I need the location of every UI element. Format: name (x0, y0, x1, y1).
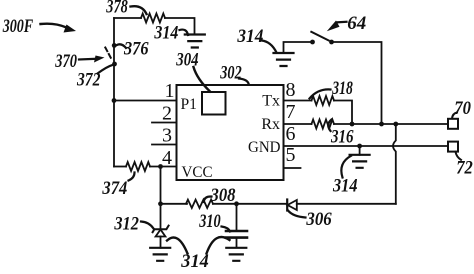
diode 306 triangle (288, 200, 297, 210)
svg-text:6: 6 (286, 123, 296, 145)
leader for 316 (328, 120, 331, 132)
junction dot pin1 (112, 98, 117, 103)
svg-text:374: 374 (102, 178, 128, 199)
leader for 308 (204, 196, 212, 202)
leader arc right for 314 (207, 237, 230, 253)
node 372 junction dot (112, 62, 117, 67)
svg-text:Tx: Tx (262, 93, 280, 110)
wire (150, 166, 177, 168)
leader for 314 (341, 156, 351, 178)
resistor 316 (312, 120, 335, 129)
arrow for 300F (41, 24, 67, 28)
svg-text:306: 306 (306, 209, 333, 230)
wire (165, 18, 195, 35)
port P1 square 304 (202, 92, 226, 115)
resistor 374 (126, 162, 150, 171)
arrow for 370 (79, 58, 96, 61)
svg-text:378: 378 (106, 0, 129, 18)
svg-text:Rx: Rx (261, 116, 280, 133)
wire Rx net (334, 123, 448, 125)
svg-text:314: 314 (154, 23, 179, 44)
svg-text:1: 1 (165, 80, 175, 102)
svg-text:304: 304 (176, 50, 199, 71)
pin 5 stub (284, 167, 301, 169)
leader for 72 (456, 152, 462, 160)
pin 2 stub (152, 122, 177, 124)
connector 72 (448, 142, 458, 152)
svg-text:370: 370 (55, 51, 78, 72)
junction dot (158, 201, 163, 206)
wire (334, 101, 352, 125)
pin 6 wire GND net (284, 145, 449, 147)
capacitor wire out (236, 239, 238, 248)
svg-text:70: 70 (454, 98, 471, 119)
IC 302 body (177, 85, 284, 180)
svg-text:3: 3 (162, 125, 172, 147)
svg-text:8: 8 (286, 79, 296, 101)
junction dot (357, 144, 362, 149)
node 376 junction dot (112, 43, 117, 48)
switch 64 blade (311, 32, 328, 41)
svg-text:7: 7 (286, 101, 296, 123)
svg-text:314: 314 (180, 251, 208, 269)
svg-text:318: 318 (332, 78, 354, 99)
leader for 306 (288, 211, 306, 218)
wire with crossover hop (393, 124, 396, 204)
zener wire out (160, 237, 162, 248)
ground (226, 248, 246, 261)
ground (150, 248, 170, 261)
junction dot (234, 201, 239, 206)
svg-text:300F: 300F (2, 16, 33, 37)
junction dot (379, 122, 384, 127)
leader for 314 (262, 41, 277, 53)
leader for 372 (98, 65, 114, 74)
leader for 302 (239, 79, 249, 85)
zener 312 cathode bar with hooks (153, 226, 169, 233)
switch contact dot (310, 40, 315, 45)
bottom rail wire (161, 203, 188, 205)
wire top (114, 17, 141, 19)
svg-text:GND: GND (248, 139, 281, 156)
ground stub wire (284, 42, 313, 53)
capacitor 310 bottom plate (226, 236, 247, 239)
svg-text:314: 314 (236, 26, 263, 47)
ground (185, 35, 205, 48)
leader for 312 (141, 222, 154, 229)
zener 312 triangle (156, 230, 166, 237)
svg-text:VCC: VCC (182, 164, 213, 181)
wire (297, 203, 396, 205)
leader arc left for 314 (167, 237, 188, 253)
pin 4 wire (114, 166, 126, 168)
resistor 318 (312, 96, 335, 105)
svg-text:376: 376 (123, 38, 149, 59)
vertical wire pin4 to bottom rail (160, 167, 162, 204)
leader for 304 (194, 67, 211, 92)
pin 1 wire (114, 100, 177, 102)
svg-text:5: 5 (286, 144, 296, 166)
svg-text:314: 314 (332, 176, 357, 197)
leader for 318 (310, 89, 331, 98)
ground stub (359, 146, 361, 155)
pin 3 stub (152, 144, 177, 146)
capacitor 310 wire in (236, 204, 238, 230)
connector 70 (448, 119, 458, 129)
junction dot (350, 122, 355, 127)
svg-text:P1: P1 (181, 96, 198, 113)
arrow for 64 (338, 21, 347, 24)
junction dot (393, 122, 398, 127)
diode 306 cathode bar (286, 200, 288, 211)
svg-text:72: 72 (456, 157, 473, 178)
ground (350, 155, 370, 168)
svg-text:312: 312 (114, 213, 140, 234)
pin 8 wire (284, 100, 312, 102)
switch ground (274, 53, 294, 66)
zener diode 312 wire in (160, 204, 162, 229)
svg-text:2: 2 (162, 103, 172, 125)
leader for 314 (180, 30, 189, 35)
leader for 374 (129, 173, 135, 181)
junction dot (158, 164, 163, 169)
leader for 376 (117, 44, 127, 48)
svg-text:310: 310 (198, 211, 221, 232)
svg-text:302: 302 (220, 63, 243, 84)
svg-text:316: 316 (330, 126, 354, 147)
svg-text:308: 308 (210, 185, 236, 206)
wire (213, 203, 287, 205)
pin 7 wire (284, 123, 312, 125)
leader for 70 (452, 113, 457, 119)
dashed break 370 (105, 48, 111, 59)
wire left vertical bus (113, 18, 115, 167)
leader for 310 (222, 227, 231, 232)
resistor 308 (186, 200, 213, 208)
switch contact dot (329, 40, 334, 45)
capacitor 310 top plate (226, 230, 247, 233)
resistor 378 (141, 14, 165, 23)
leader for 378 (131, 6, 147, 14)
svg-text:64: 64 (347, 13, 366, 34)
wire from switch (332, 42, 382, 124)
